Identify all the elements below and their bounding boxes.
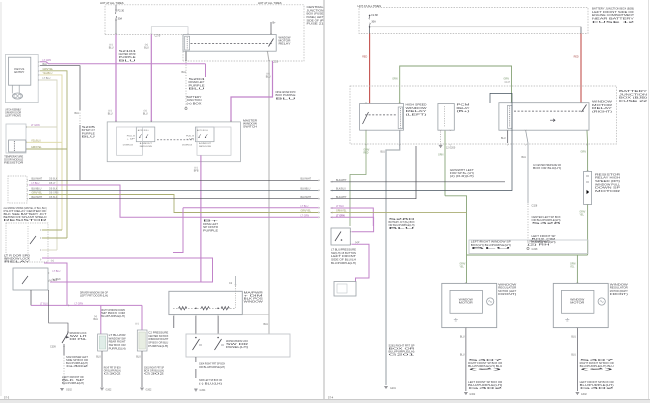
label central junction box — [307, 5, 325, 26]
pin C220 gray — [268, 59, 270, 62]
svg-text:RAPID/DOWN: RAPID/DOWN — [199, 145, 211, 148]
label G302a — [66, 389, 73, 392]
relay pin top right — [270, 33, 272, 36]
switch tiny labels — [127, 135, 136, 140]
bjb internal rail — [370, 26, 581, 28]
label c1 (+) — [110, 44, 113, 47]
svg-text:GRN: GRN — [392, 78, 398, 81]
svg-text:GRN/YEL: GRN/YEL — [336, 210, 347, 213]
latch module outer box — [5, 55, 38, 103]
window motor left circle — [487, 298, 494, 305]
wire B+ stub — [270, 22, 272, 35]
svg-text:LT BLU: LT BLU — [336, 205, 344, 208]
junction box inner dashed rail — [105, 33, 183, 35]
svg-text:LT GRN: LT GRN — [336, 214, 345, 217]
bus label LT BLU — [32, 182, 40, 185]
lock switch inner dashed — [27, 226, 29, 259]
bus right pin 217.3 — [318, 217, 321, 219]
label BLU hs — [381, 151, 386, 154]
wire rail jog to relay — [151, 27, 188, 35]
svg-text:GRN/YEL: GRN/YEL — [301, 210, 312, 213]
wire cross E — [331, 146, 417, 199]
svg-text:BLK/WHT: BLK/WHT — [301, 196, 312, 199]
svg-text:G201: G201 — [389, 354, 418, 357]
switch tiny labels 3 — [140, 142, 153, 148]
ground lock — [194, 389, 198, 391]
high speed relay box — [360, 104, 404, 131]
right bus pin 190.5 — [330, 190, 333, 192]
label motor left G — [469, 393, 476, 396]
note driver window sw — [80, 291, 108, 297]
note sw splice 1 — [66, 356, 90, 368]
bus pin 5 — [26, 198, 29, 200]
wm end circle — [527, 247, 529, 249]
door sw arm — [335, 232, 341, 242]
label BLU wm1 — [501, 137, 506, 140]
svg-text:C309: C309 — [50, 346, 56, 349]
label BLU gray mid — [264, 323, 269, 326]
wire H into box — [352, 217, 374, 231]
svg-text:PULL B: PULL B — [127, 135, 136, 137]
svg-text:BLK/WHT: BLK/WHT — [336, 179, 347, 182]
svg-text:(+) BLK: (+) BLK — [53, 278, 62, 281]
door sw dot — [341, 239, 343, 241]
window motor left inner — [450, 290, 482, 313]
svg-text:(RIGHT): (RIGHT) — [592, 109, 612, 113]
right bus label BLK/BLU 190.5 — [336, 188, 346, 191]
resistor pin 1 — [25, 126, 28, 128]
connector circle left — [185, 107, 187, 109]
note lower mid — [101, 309, 125, 318]
wire res pale — [27, 126, 57, 128]
svg-text:S328: S328 — [532, 222, 564, 225]
label motor left blu 1 — [460, 336, 465, 339]
label c2xx — [229, 282, 233, 285]
wire lock pale — [42, 249, 57, 251]
bus wire A blk/wht — [29, 179, 319, 181]
regulator inner marks — [586, 176, 589, 194]
label G200 — [446, 147, 456, 150]
latch pin 5 — [38, 79, 41, 81]
window motor right outer — [553, 283, 608, 327]
svg-text:(B+): (B+) — [457, 109, 470, 113]
right bus pin 217.3 — [330, 217, 333, 219]
wm relay arm — [582, 105, 587, 113]
label pcm relay — [457, 103, 470, 113]
res net dot 2 — [217, 308, 219, 310]
resistor inner dashed — [13, 141, 15, 151]
wire red 2 — [580, 34, 582, 103]
window motor right bottom pin — [577, 326, 579, 329]
svg-text:FRONT): FRONT) — [498, 293, 516, 296]
bus right label LT BLU 207.8 — [301, 205, 309, 208]
label c2 low (+) — [144, 110, 147, 113]
svg-text:FUSE 21: FUSE 21 — [307, 22, 325, 26]
hs relay arm — [363, 112, 369, 124]
lock switch container — [186, 334, 290, 357]
switch tiny labels 4 — [123, 144, 134, 146]
wire res yel — [27, 141, 62, 143]
note box above motors — [469, 240, 588, 254]
hs pin bl — [365, 129, 367, 132]
svg-text:LT GRN: LT GRN — [301, 214, 310, 217]
label window relay — [279, 35, 292, 45]
ground motor right — [576, 393, 580, 395]
relay coil — [185, 36, 190, 50]
hs pin tr — [399, 101, 401, 104]
enclosure pin 399.7 — [399, 143, 401, 146]
svg-text:S2104: S2104 — [119, 51, 138, 53]
svg-text:(LEFT FRONT): (LEFT FRONT) — [5, 114, 21, 118]
door sw pin bot — [349, 243, 352, 245]
sw cluster arm — [62, 333, 68, 343]
label c1 low (+) — [109, 110, 112, 113]
junction box enclosure (dashed) — [105, 5, 304, 61]
bus pin 4 — [26, 194, 29, 196]
lock pin 250 — [39, 249, 42, 251]
wm relay dashed — [514, 110, 584, 112]
wire wm out 2 gray — [526, 131, 528, 203]
bus right label GRN/YEL 212.5 — [301, 210, 312, 213]
label G304 — [200, 389, 207, 392]
wire relay out gray long — [268, 52, 270, 334]
svg-text:BLU: BLU — [389, 227, 416, 230]
note hs splice — [389, 218, 418, 230]
svg-text:BLU: BLU — [189, 87, 205, 91]
latch motor circle — [13, 93, 23, 99]
window motor right gnd mark — [565, 318, 569, 321]
lock sw marks — [199, 344, 224, 346]
label GRN tl 2 — [504, 78, 510, 81]
label LT GRN res — [31, 124, 40, 127]
latch pin label BLK — [43, 63, 48, 66]
svg-text:RELAY: RELAY — [279, 41, 291, 45]
wire green right motor drop — [576, 255, 578, 283]
relay switch arm — [269, 39, 274, 47]
note latch assembly — [5, 107, 21, 117]
note res net right — [244, 291, 264, 303]
window relay small box — [13, 268, 48, 290]
label GRN rm — [570, 264, 576, 266]
label GRN/YEL res — [31, 146, 42, 149]
bus label2 LT BLU — [49, 182, 56, 185]
svg-text:GRN/: GRN/ — [364, 150, 370, 152]
bus wire C blk/blu — [29, 189, 319, 191]
switch contacts — [139, 134, 148, 138]
label comp A (+) — [94, 315, 97, 318]
wire door sw out — [352, 244, 370, 281]
svg-text:LT BLU: LT BLU — [301, 205, 309, 208]
note right motor right side — [610, 284, 629, 297]
wire violet riser 1 — [115, 34, 117, 122]
svg-text:GRN: GRN — [581, 151, 587, 154]
wm pin br — [586, 129, 588, 132]
wire cross H violet — [331, 216, 369, 218]
small relay arm — [22, 276, 28, 284]
switch bottom pin — [200, 160, 202, 163]
bus label2 GRN/YEL — [49, 192, 59, 195]
svg-text:FUSE 12: FUSE 12 — [592, 20, 636, 24]
enclosure pin 587 — [586, 143, 588, 146]
svg-text:12 G200: 12 G200 — [446, 147, 456, 150]
relay enclosure (dashed) — [350, 86, 617, 144]
switch subbox left — [136, 127, 155, 142]
wire res net leg 2 — [195, 316, 197, 334]
label BLU relay left — [182, 71, 187, 74]
window motor right inner — [562, 290, 594, 313]
label comp B (+) — [136, 323, 139, 326]
svg-text:BLU: BLU — [144, 47, 149, 50]
right bus pin 181.8 — [330, 181, 333, 183]
svg-text:LT BLU: LT BLU — [40, 302, 48, 305]
svg-text:57-3: 57-3 — [4, 395, 10, 399]
svg-text:MOTOR: MOTOR — [459, 302, 473, 305]
svg-text:DOWN LB: DOWN LB — [182, 144, 193, 146]
splice note S2104 — [119, 51, 138, 62]
svg-text:BFB: BFB — [194, 170, 199, 173]
bus wire E blk/wht — [29, 198, 319, 200]
svg-text:G328: G328 — [532, 248, 539, 251]
note motor left splice 2 — [468, 381, 505, 390]
note above motors — [471, 241, 513, 250]
label motor right G — [581, 393, 588, 396]
pin C2 right — [151, 33, 153, 36]
bus label BLK/WHT — [32, 196, 43, 199]
svg-text:RED: RED — [574, 56, 579, 59]
label c328 — [532, 204, 538, 207]
note lock splice 1 — [199, 363, 225, 369]
wire small relay bottom — [30, 290, 32, 305]
label GRN lm — [460, 264, 466, 266]
label master window switch — [243, 118, 258, 128]
svg-text:ENTRY: ENTRY — [14, 70, 24, 74]
connector label C220b — [273, 61, 279, 64]
small relay pin 2 — [47, 280, 50, 282]
svg-text:YEL: YEL — [570, 267, 575, 269]
label comp A BLU2 — [96, 356, 101, 359]
note lock splice 2 — [199, 379, 222, 385]
svg-text:BLU: BLU — [119, 60, 137, 62]
pin bottom horiz — [67, 305, 70, 307]
wire res net leg 3 — [217, 316, 219, 334]
note comp B — [148, 332, 168, 348]
label comp B BLU — [136, 356, 141, 359]
left page left border — [0, 2, 2, 396]
svg-text:BLU: BLU — [143, 113, 148, 116]
latch leg 2 — [18, 85, 20, 93]
svg-text:DR PNL: DR PNL — [70, 338, 88, 341]
svg-text:(+): (+) — [136, 323, 139, 326]
bus right pin 190.3 — [318, 190, 321, 192]
latch pin label LT GRN — [43, 59, 52, 62]
wire cross F violet — [331, 208, 374, 226]
wire motor left down — [465, 328, 467, 391]
ground comp A — [100, 388, 104, 390]
svg-text:BLU/PURPLE(LH): BLU/PURPLE(LH) — [331, 262, 356, 265]
svg-text:G302: G302 — [468, 387, 505, 390]
label GRN reg2 — [580, 215, 585, 217]
svg-text:30A: 30A — [118, 18, 123, 21]
svg-text:PURPLE(LH): PURPLE(LH) — [148, 345, 168, 348]
bus right label BLK/WHT 198.7 — [301, 196, 312, 199]
label RED 1 — [362, 56, 367, 59]
svg-text:DOWN LB: DOWN LB — [123, 144, 134, 146]
switch tiny labels 3 — [199, 142, 212, 148]
svg-text:(+): (+) — [51, 260, 54, 262]
label (+) bfb 2 — [194, 170, 199, 173]
note temperature resistor — [4, 154, 23, 164]
master window switch box — [107, 122, 240, 162]
svg-text:MOTOR: MOTOR — [595, 190, 621, 193]
ground G302 left — [60, 389, 64, 391]
res net bot pin 3 — [217, 314, 219, 317]
label hot at all times left — [100, 1, 124, 5]
right page right border — [648, 0, 650, 399]
enclosure pin 440.6 — [440, 143, 442, 146]
sw cluster dot — [67, 331, 69, 333]
svg-text:BLU/PURPLE(LH): BLU/PURPLE(LH) — [62, 382, 84, 385]
svg-text:A DIM/OUT: A DIM/OUT — [199, 142, 212, 145]
fuse dot top — [115, 9, 116, 10]
left page number — [4, 395, 10, 399]
window motor left gnd mark — [454, 318, 458, 321]
wire sw cluster feed — [49, 290, 68, 331]
latch inner label — [14, 67, 24, 74]
svg-text:BLU: BLU — [75, 112, 80, 115]
wire green top loop — [400, 66, 512, 104]
label hot at all times right — [358, 4, 382, 8]
resistor zigzag — [179, 307, 187, 310]
bus right pin 212.5 — [318, 212, 321, 214]
svg-text:AUTO ROLL: AUTO ROLL — [197, 129, 209, 132]
note comp A splice — [104, 366, 123, 375]
switch tiny labels — [186, 135, 195, 140]
switch link dashed — [157, 139, 194, 141]
latch pin label LT BLU — [43, 77, 51, 80]
bus right label LT GRN 217.3 — [301, 214, 310, 217]
svg-text:BLU: BLU — [460, 336, 465, 339]
label (+) bfb 1 — [195, 167, 198, 170]
svg-text:+ UP: + UP — [186, 138, 195, 140]
svg-text:G302: G302 — [581, 393, 588, 396]
component B fill — [139, 332, 146, 349]
note comp A — [109, 334, 127, 350]
svg-text:(+) BOX: (+) BOX — [187, 101, 202, 105]
svg-text:(2) (R-R)(LH): (2) (R-R)(LH) — [450, 175, 474, 178]
res net top dashed drop — [235, 286, 237, 308]
ground hs — [384, 387, 388, 389]
svg-text:F2.30: F2.30 — [118, 10, 125, 13]
label c2 BLU — [144, 47, 149, 50]
door module inner — [337, 284, 347, 293]
door lock switch box (dashed) — [6, 223, 48, 262]
bus right label BLK/BLU 190.3 — [301, 187, 311, 190]
svg-text:BLU: BLU — [266, 76, 271, 79]
svg-text:A DIM/OUT: A DIM/OUT — [140, 142, 153, 145]
right bus label LT BLU 208.0 — [336, 205, 344, 208]
svg-text:BLU: BLU — [471, 247, 513, 250]
svg-text:C220: C220 — [273, 61, 279, 64]
wm relay coil — [508, 105, 513, 128]
svg-text:BLK/WHT: BLK/WHT — [336, 196, 347, 199]
note motor right splice 1 — [580, 359, 618, 371]
bus wire F riser — [173, 208, 183, 253]
res net bot pin 1 — [173, 314, 175, 317]
svg-text:(2): (2) — [468, 368, 504, 371]
label grn/red2 — [364, 153, 369, 155]
res net top pin — [235, 284, 237, 287]
svg-text:OR BLU/PURPLE(LH): OR BLU/PURPLE(LH) — [199, 366, 225, 369]
svg-text:FRONT): FRONT) — [610, 293, 628, 296]
label GRN lm2 — [460, 267, 465, 269]
svg-text:CENTER DISTR: CENTER DISTR — [119, 54, 136, 56]
label window motor relay — [592, 100, 613, 114]
svg-text:RESISTOR: RESISTOR — [4, 219, 48, 222]
page divider — [323, 0, 325, 399]
switch pin B — [151, 120, 153, 123]
note wiring harness — [4, 207, 48, 222]
note window lock sw — [70, 332, 88, 341]
component A fill — [99, 336, 106, 349]
switch tiny labels 2 — [138, 129, 150, 132]
label grn/red — [364, 150, 370, 152]
wire latch violet — [40, 62, 206, 64]
svg-text:G302: G302 — [106, 389, 113, 392]
wire latch blk — [40, 66, 80, 110]
wire lock olv 2 — [42, 237, 67, 239]
switch tiny labels 4 — [182, 144, 193, 146]
fuse label F2.30 — [118, 10, 125, 13]
latch pin 1 — [38, 61, 41, 63]
label motor left blu 2 — [460, 354, 465, 357]
resistor outer box — [6, 124, 26, 153]
relay pin bottom right — [267, 50, 269, 53]
wire fuse to edge — [369, 27, 371, 34]
hs pin br — [399, 129, 401, 132]
wire comp A down — [101, 351, 103, 387]
wire hs out right gray — [386, 131, 400, 385]
svg-text:HOT AT ALL TIMES: HOT AT ALL TIMES — [358, 4, 382, 8]
label relay violet BLU — [266, 76, 271, 79]
bus label2 BLK/WHT — [49, 177, 58, 180]
lock pin 259.5 — [39, 259, 42, 261]
svg-text:PURPLE(LH): PURPLE(LH) — [109, 347, 126, 350]
svg-text:G302: G302 — [66, 389, 73, 392]
label relay violet (+) — [267, 73, 270, 76]
small relay pin 1 — [47, 272, 50, 274]
note wm splice 2 — [532, 235, 556, 244]
wire lock violet H1 — [42, 258, 213, 282]
pin c328 — [527, 203, 529, 206]
label lt blu small — [53, 270, 61, 273]
label c1 BLU — [109, 47, 114, 50]
component A outer — [98, 334, 108, 351]
window motor right circle — [598, 298, 605, 305]
latch pin 4 — [38, 74, 41, 76]
svg-text:G302: G302 — [144, 372, 166, 375]
svg-text:RED: RED — [362, 56, 367, 59]
splice dashes left — [185, 62, 187, 107]
wire hs out left — [350, 131, 366, 226]
label motor right blu 1 — [571, 336, 576, 339]
svg-text:YEL: YEL — [580, 215, 585, 217]
switch pin C — [230, 120, 232, 123]
latch blk splice dashes — [79, 110, 81, 125]
relay contact dashed link — [191, 42, 273, 44]
wire motor right down — [576, 328, 578, 391]
lock switch arm — [30, 236, 36, 244]
wire latch violet drop — [205, 64, 207, 77]
